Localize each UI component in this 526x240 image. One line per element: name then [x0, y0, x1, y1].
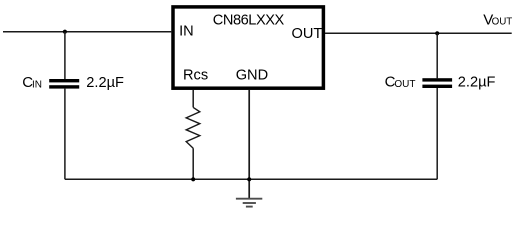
node: GND to rail junction: [247, 177, 251, 181]
capacitor COUT plates: [422, 78, 452, 88]
ground symbol: [236, 199, 262, 207]
svg-text:COUT: COUT: [385, 74, 416, 91]
wire: GND pin lead down through rail to ground symbol: [248, 90, 250, 198]
wire: CIN top lead: [64, 32, 66, 79]
node: resistor to rail junction: [191, 177, 195, 181]
svg-text:2.2µF: 2.2µF: [458, 74, 496, 90]
svg-text:IN: IN: [179, 24, 194, 40]
node: output junction at COUT: [435, 31, 439, 35]
wire: Rcs pin lead: [192, 90, 194, 108]
wire: bottom ground rail: [65, 178, 437, 180]
svg-text:CIN: CIN: [22, 74, 42, 91]
svg-text:2.2µF: 2.2µF: [86, 75, 124, 91]
IC U1: CN86LXXX regulator body: [173, 7, 323, 88]
svg-text:CN86LXXX: CN86LXXX: [213, 13, 285, 29]
node: input junction at CIN: [63, 30, 67, 34]
wire: OUT net from OUT pin to VOUT terminal: [325, 32, 512, 34]
svg-text:Rcs: Rcs: [183, 68, 208, 84]
wire: COUT top lead: [436, 33, 438, 78]
wire: CIN bottom lead down to ground rail: [64, 89, 66, 180]
wire: input net from left edge to IN pin: [3, 31, 171, 33]
svg-text:GND: GND: [236, 68, 268, 84]
svg-text:VOUT: VOUT: [483, 11, 512, 28]
svg-text:OUT: OUT: [292, 26, 323, 42]
resistor Rcs (current-set) zigzag: [186, 107, 200, 148]
capacitor CIN plates: [49, 79, 79, 89]
wire: resistor bottom lead to rail: [192, 148, 194, 179]
wire: COUT bottom lead down to rail: [436, 88, 438, 179]
